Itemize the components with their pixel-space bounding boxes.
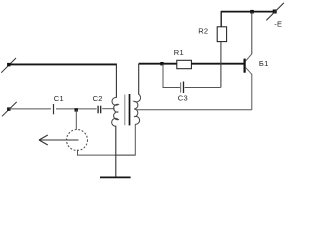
microphone M1 (dashed circle) — [67, 130, 88, 151]
svg-text:R2: R2 — [198, 26, 208, 35]
ground stem — [115, 126, 117, 178]
wire: C3 branch left segment — [163, 87, 180, 89]
wire: top supply rail — [221, 11, 275, 13]
wire: C1 to junction to C2 — [56, 108, 97, 110]
svg-text:C3: C3 — [178, 94, 188, 103]
wire: emitter long run to secondary tap — [136, 109, 252, 111]
svg-text:-Е: -Е — [274, 19, 282, 28]
transformer T1 secondary (right winding) — [134, 94, 141, 124]
arrow (sound direction) — [39, 135, 79, 145]
terminal X2 dot — [7, 107, 10, 110]
wire: down to primary top — [115, 64, 117, 97]
terminal X1 dot — [7, 63, 10, 66]
svg-text:R1: R1 — [174, 48, 184, 57]
terminal -E diagonal — [266, 3, 284, 21]
wire: mic stub down from node A — [75, 110, 77, 130]
terminal X2 (lower-left input) — [2, 102, 17, 116]
wire: base rail (secondary top to R1) — [139, 63, 177, 65]
transistor Q1 base bar — [244, 59, 246, 73]
resistor R1 — [177, 60, 192, 68]
terminal X1 (top-left input) — [1, 58, 16, 73]
svg-text:C1: C1 — [54, 94, 64, 103]
terminal -E dot — [273, 10, 277, 14]
wire: collector vertical — [251, 12, 253, 55]
wire: secondary top to base rail — [138, 64, 140, 95]
capacitor C2 plates — [97, 106, 99, 114]
svg-text:Б1: Б1 — [259, 59, 269, 68]
wire: mic bottom to ground node — [78, 150, 136, 156]
transformer T1 primary (left winding) — [112, 97, 119, 126]
node C (collector junction dot) — [250, 10, 254, 14]
wire: emitter vertical down — [251, 74, 253, 110]
ground bar — [100, 176, 131, 178]
wire: R2 top lead — [220, 12, 222, 27]
wire: C3 up to base rail and R2 — [220, 42, 222, 88]
capacitor C1 plate — [53, 104, 55, 114]
wire: top-left rail to transformer — [9, 63, 117, 65]
wire: C2 to primary tap — [102, 108, 114, 110]
transistor Q1 collector diagonal — [246, 54, 252, 61]
wire: X2 to C1 — [9, 108, 51, 110]
svg-text:C2: C2 — [93, 94, 103, 103]
wire: C3 branch right segment — [185, 87, 221, 89]
transistor Q1 emitter diagonal — [246, 67, 252, 74]
wire: R1 to transistor base — [191, 63, 244, 65]
wire: secondary bottom down and left to ground node — [116, 124, 136, 155]
transformer core — [124, 95, 126, 126]
resistor R2 — [217, 27, 226, 42]
node B (junction dot C3 branch) — [160, 62, 163, 65]
node A (junction dot mic tap) — [75, 108, 78, 111]
wire: C3 branch down — [162, 64, 164, 88]
capacitor C3 plates — [180, 82, 182, 92]
